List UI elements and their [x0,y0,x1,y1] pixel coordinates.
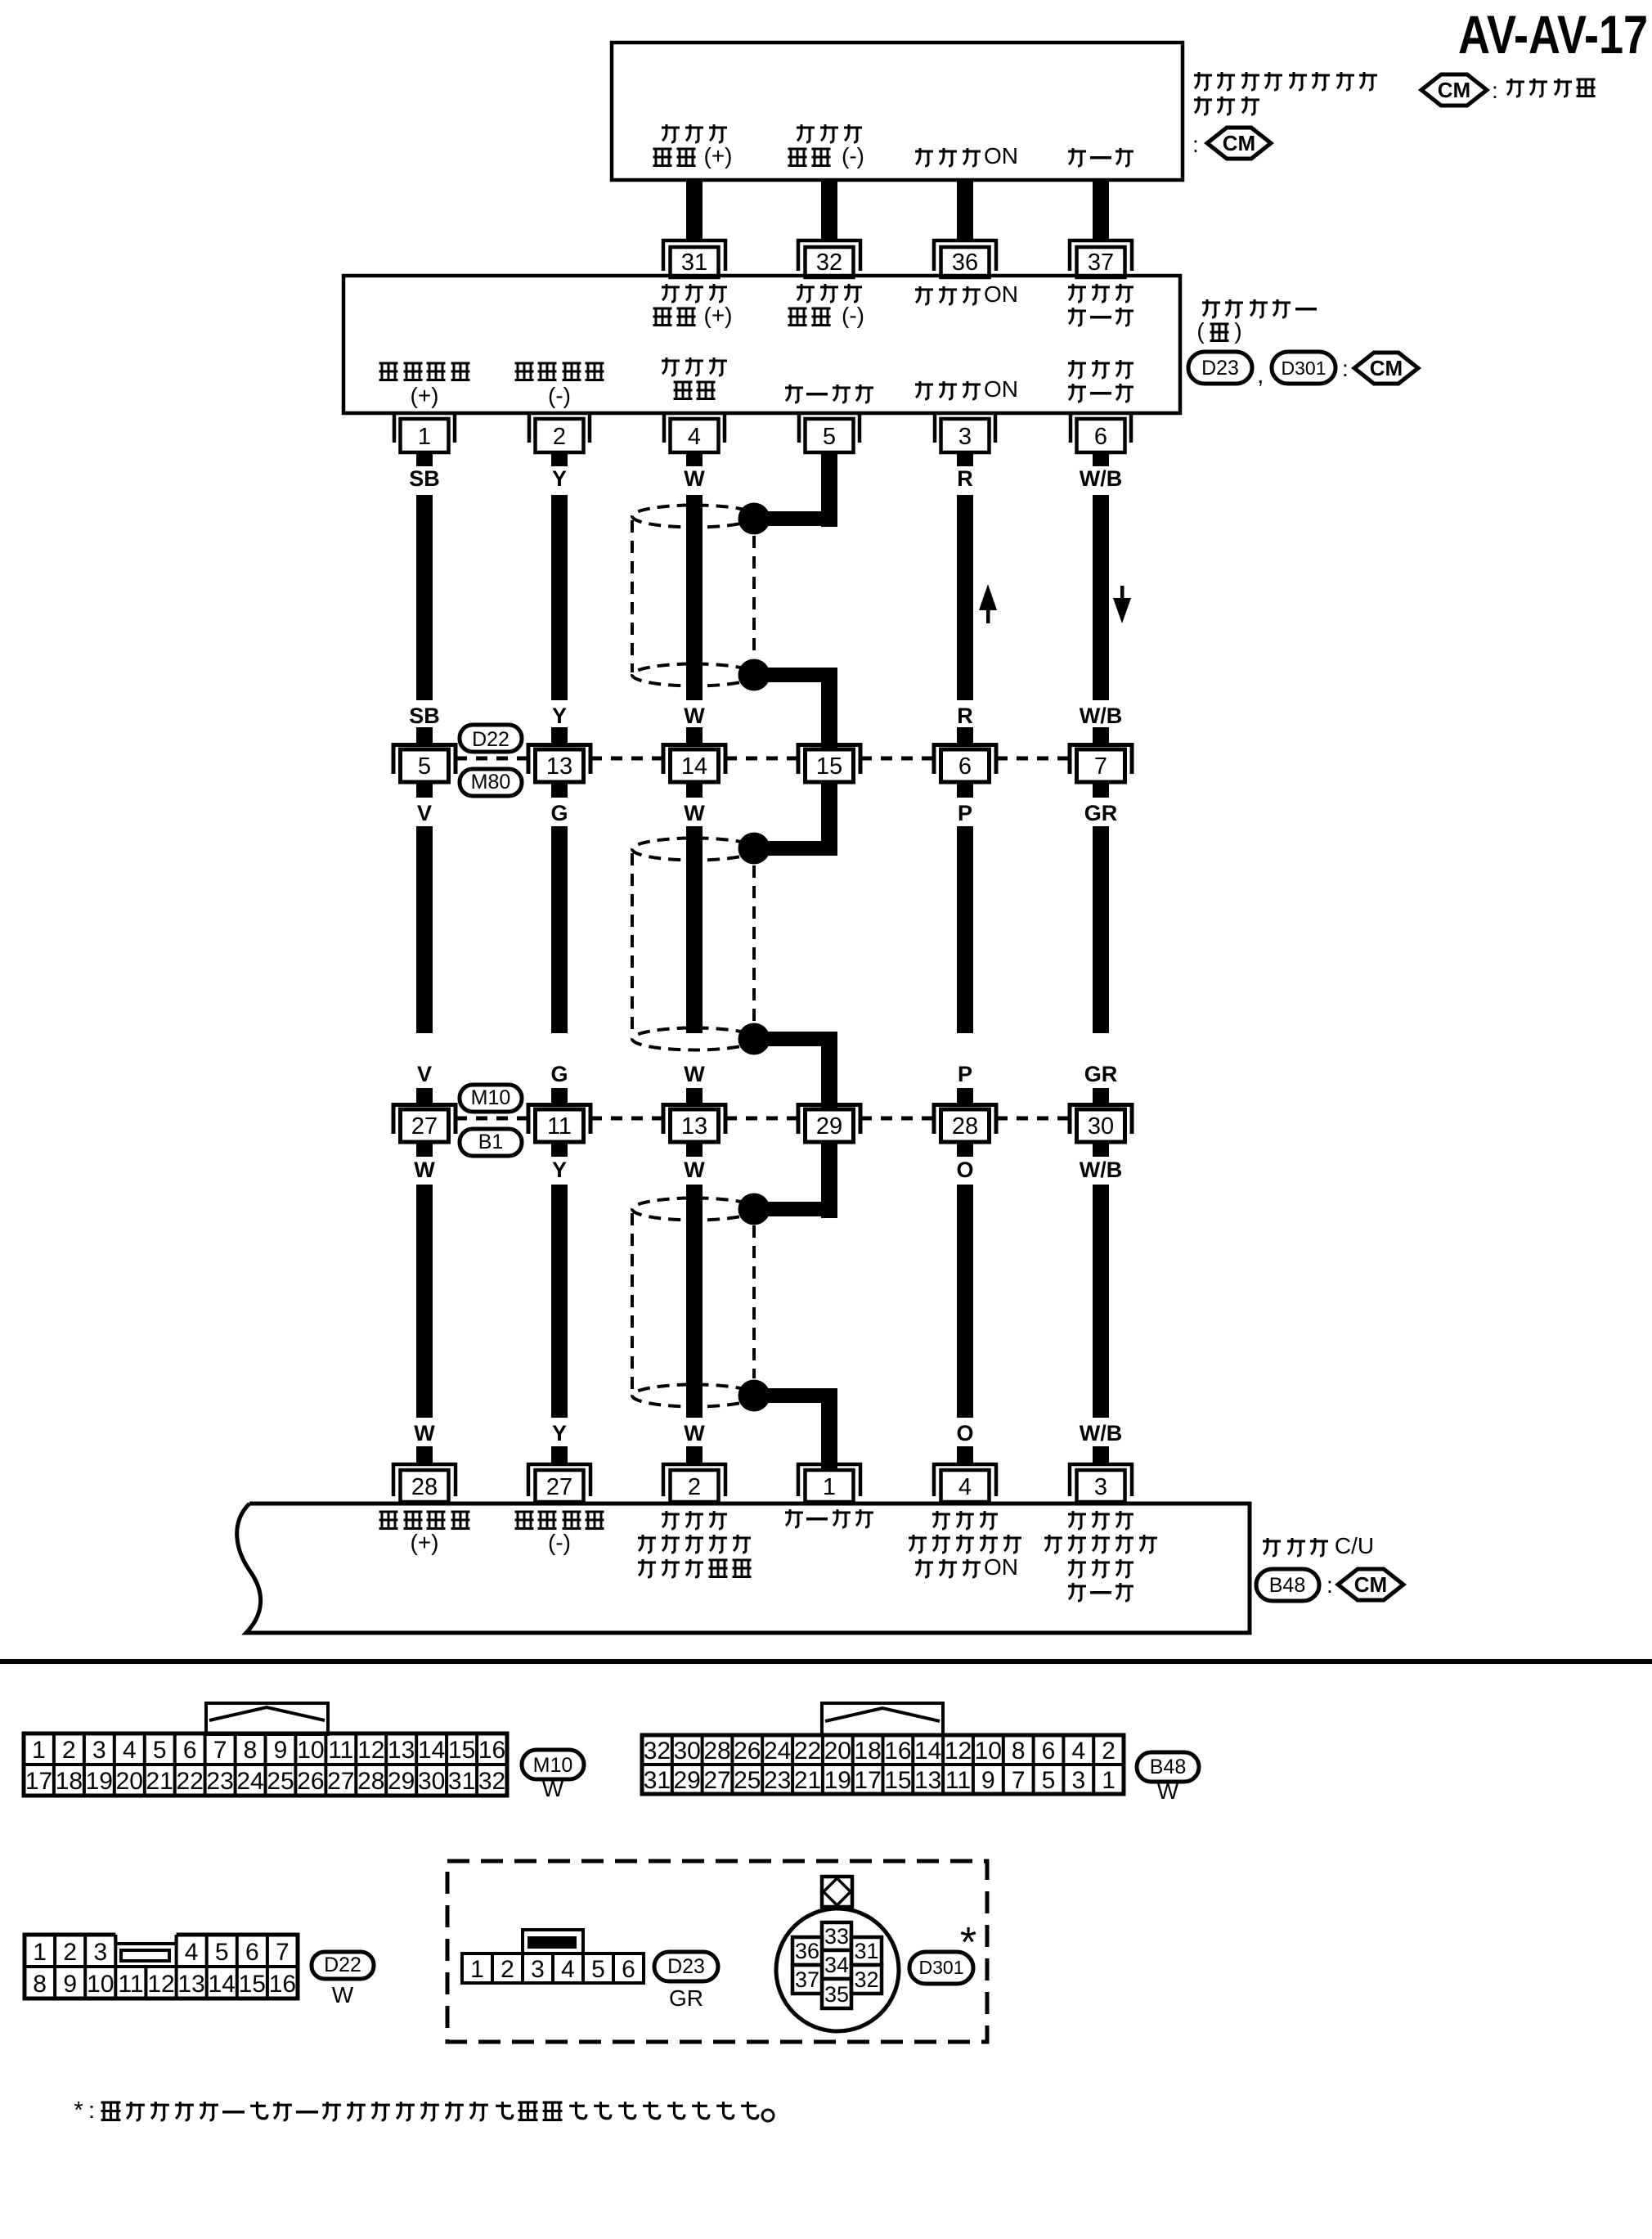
svg-text:SB: SB [409,466,440,491]
annotation: side blind camera [1194,72,1377,90]
svg-text:ON: ON [984,1554,1018,1580]
svg-text:11: 11 [328,1737,353,1764]
svg-text:GR: GR [1084,1062,1118,1086]
svg-text:(+): (+) [411,383,439,408]
door mirror bottom label c2 line1 [515,363,604,380]
CU label c2 line1 [515,1512,604,1529]
svg-text:W: W [414,1158,435,1182]
label camera eizo(+) line1 [662,124,727,142]
pin 28 camera C/U [393,1464,456,1502]
door mirror bottom label c2 line2 [548,383,571,408]
svg-text:P: P [958,1062,972,1086]
svg-text:6: 6 [183,1737,197,1764]
wire stub below row2 [1093,1142,1109,1157]
door mirror top label c5 [915,281,1018,307]
svg-text:(-): (-) [842,303,864,328]
pin 30 row2 [1070,1105,1132,1143]
svg-text:19: 19 [824,1767,851,1794]
wire segment [957,495,973,700]
pin 28 row2 [934,1105,996,1143]
in-line connector dashed row [456,757,528,761]
svg-text:): ) [1234,318,1241,344]
svg-text:M10: M10 [471,1086,511,1109]
svg-text:D22: D22 [472,728,510,751]
svg-text:14: 14 [681,753,707,780]
svg-text:35: 35 [824,1982,849,2007]
in-line connector dashed row 2 [996,1117,1070,1121]
svg-text:2: 2 [63,1939,77,1966]
pin 6 row1 [934,745,996,783]
shield wire bend to junction [762,511,837,526]
wire from camera unit [1093,178,1109,241]
pin 27 row2 [393,1105,456,1143]
svg-text:13: 13 [388,1737,415,1764]
wire stub [551,1088,568,1103]
svg-text:D22: D22 [324,1954,361,1976]
svg-text:1: 1 [823,1474,836,1500]
pin 1 door mirror [394,415,455,466]
wire segment [551,1185,568,1418]
label camera eizo(+) line2 [653,143,733,169]
pin 7 row1 [1070,745,1132,783]
svg-text:D23: D23 [667,1955,705,1978]
door mirror bottom label c6 line2 [1068,384,1134,402]
svg-text:7: 7 [276,1939,290,1966]
svg-text:3: 3 [1094,1474,1107,1500]
pin 37 [1070,241,1132,277]
wire segment [416,495,433,700]
shield cylinder 2 [632,839,756,1050]
svg-text:11: 11 [118,1971,143,1998]
annotation (left) [1196,318,1241,344]
svg-text:25: 25 [734,1767,761,1794]
svg-text:AV-AV-17: AV-AV-17 [1458,4,1648,65]
CU label c6 line3 [1068,1559,1134,1577]
wire segment [686,495,703,700]
CU label c3 line1 [662,1511,727,1529]
svg-text:20: 20 [116,1768,143,1795]
svg-text:29: 29 [388,1768,415,1795]
shield junction dot [738,1023,770,1055]
wire stub to camera CU pin [1093,1446,1109,1464]
svg-text:M10: M10 [533,1754,573,1777]
label camera ON [915,143,1018,169]
CU label c1 line2 [411,1530,439,1555]
svg-text:CM: CM [1438,78,1470,102]
wire stub to camera CU pin [551,1446,568,1464]
connector label M10 [460,1085,522,1112]
svg-text:CM: CM [1354,1572,1387,1597]
svg-text::: : [88,2097,95,2124]
svg-text:Y: Y [552,1158,567,1182]
svg-text:36: 36 [952,250,978,276]
svg-text:W: W [684,1421,705,1445]
door mirror bottom label shield [785,384,873,402]
svg-text:28: 28 [703,1738,730,1765]
svg-text:*: * [960,1919,976,1967]
CU label c3 line3 [638,1559,752,1577]
pin 5 row1 [393,745,456,783]
svg-text:ON: ON [984,281,1018,307]
in-line connector dashed row [996,757,1070,761]
CM hexagon for camera C/U [1338,1569,1403,1600]
shield wire bend from junction [762,668,837,682]
svg-text:28: 28 [411,1474,438,1500]
svg-text:4: 4 [688,424,701,450]
box: camera control unit [237,1504,1250,1633]
connector label B48 [1256,1569,1319,1601]
wire segment [1093,495,1109,700]
svg-text:24: 24 [764,1738,791,1765]
shield junction dot [738,1380,770,1412]
svg-text:W: W [414,1421,435,1445]
arrow down (signal direction) on W/B wire [1113,586,1131,623]
svg-text:12: 12 [147,1971,174,1998]
wire stub [686,727,703,743]
svg-text:1: 1 [470,1956,484,1983]
CU label c3 line2 [638,1535,751,1553]
svg-text:(: ( [1196,318,1205,344]
shield braid dashed link [752,536,756,657]
pin 5 door mirror [799,415,860,466]
svg-text:27: 27 [411,1113,438,1140]
svg-text:27: 27 [327,1768,354,1795]
svg-text:15: 15 [239,1971,266,1998]
svg-text:*: * [74,2097,83,2124]
pin 13 row1 [528,745,590,783]
pin 27 camera C/U [528,1464,590,1502]
svg-text:Y: Y [552,1421,567,1445]
label earth [1068,148,1134,166]
svg-text:12: 12 [357,1737,384,1764]
svg-text:ON: ON [984,143,1018,169]
pin 13 row2 [663,1105,725,1143]
wire from camera unit [957,178,973,241]
label camera eizo(-) line1 [797,124,862,142]
svg-text:6: 6 [1042,1738,1056,1765]
svg-text:CM: CM [1370,356,1403,380]
svg-text:31: 31 [854,1939,878,1963]
svg-text:8: 8 [1012,1738,1026,1765]
svg-text:23: 23 [206,1768,233,1795]
door mirror bottom label c6 line1 [1068,360,1134,378]
wire stub below row2 [416,1142,433,1157]
svg-text:1: 1 [418,424,431,450]
svg-text:24: 24 [236,1768,263,1795]
pin 3 camera C/U [1070,1464,1132,1502]
door mirror bottom label c5 [915,376,1018,402]
shield junction dot [738,503,770,535]
wire stub below row1 [1093,782,1109,798]
svg-text:5: 5 [1042,1767,1056,1794]
svg-text:13: 13 [914,1767,941,1794]
svg-text:3: 3 [958,424,972,450]
pin 29 row2 [798,1105,860,1143]
svg-text:15: 15 [884,1767,911,1794]
svg-text:W: W [684,1158,705,1182]
svg-text:W: W [1157,1778,1179,1804]
CU label c6 line2 [1044,1535,1157,1553]
svg-text:6: 6 [245,1939,259,1966]
shield wire bend to junction 3a [762,1202,837,1216]
door mirror top label c6 line2 [1068,308,1134,326]
wire stub to camera CU pin [686,1446,703,1464]
svg-text:4: 4 [185,1939,199,1966]
wire stub to camera CU pin [957,1446,973,1464]
svg-text::: : [1342,356,1349,381]
pin 15 row1 [798,745,860,783]
wire segment [957,826,973,1033]
svg-text:5: 5 [418,753,431,780]
wire segment [1093,1185,1109,1418]
door mirror top label c4 line2 [788,303,864,328]
svg-text:22: 22 [177,1768,204,1795]
wire stub below row2 [686,1142,703,1157]
CU label c2 line2 [548,1530,571,1555]
svg-text:W: W [684,801,705,825]
door mirror top label c3 line2 [653,303,733,328]
CU label c5 line2 [909,1535,1021,1553]
shield cylinder 1 [632,506,756,686]
svg-text:GR: GR [1084,801,1118,825]
svg-text:28: 28 [952,1113,978,1140]
svg-text:W/B: W/B [1080,466,1122,491]
wire segment [957,1185,973,1418]
svg-text:32: 32 [816,250,842,276]
svg-text:4: 4 [561,1956,575,1983]
svg-text:W: W [332,1982,354,2007]
svg-text:15: 15 [448,1737,475,1764]
wire segment [416,826,433,1033]
svg-text:3: 3 [93,1939,107,1966]
connector face D22 [25,1935,298,1998]
connector face D23 [462,1930,644,1983]
svg-text:6: 6 [958,753,972,780]
wire stub [416,1088,433,1103]
svg-text:11: 11 [547,1113,572,1140]
in-line connector dashed row 2 [860,1117,934,1121]
svg-text:2: 2 [553,424,566,450]
svg-text:32: 32 [854,1967,878,1992]
svg-text:25: 25 [267,1768,294,1795]
pin 36 [934,241,996,277]
connector label M80 [460,769,522,796]
svg-text:27: 27 [703,1767,730,1794]
svg-text:Y: Y [552,704,567,728]
svg-text:G: G [550,1062,568,1086]
svg-text:4: 4 [958,1474,972,1500]
svg-text:14: 14 [914,1738,941,1765]
door mirror top label c6 line1 [1068,284,1134,302]
svg-text:9: 9 [63,1971,77,1998]
svg-text:6: 6 [1094,424,1107,450]
svg-text:5: 5 [823,424,836,450]
svg-text:P: P [958,801,972,825]
in-line connector dashed row 2 [590,1117,663,1121]
svg-text:O: O [956,1158,973,1182]
box: door mirror (left) [343,276,1180,413]
svg-text:16: 16 [884,1738,911,1765]
svg-text:1: 1 [33,1939,47,1966]
note text [74,2097,774,2124]
connector face B48 [642,1703,1124,1794]
label camera eizo(-) line2 [788,143,864,169]
svg-text:W/B: W/B [1080,1421,1122,1445]
svg-text:36: 36 [795,1939,819,1963]
legend camera-tsuki [1506,79,1596,97]
pin 32 [798,241,860,277]
connector label M10 [522,1750,584,1779]
door mirror bottom label c3 line2 [674,382,716,399]
svg-text:21: 21 [146,1768,173,1795]
in-line connector dashed row 2 [725,1117,798,1121]
svg-text:13: 13 [681,1113,707,1140]
svg-text::: : [1327,1572,1333,1598]
CM hexagon for side blind camera [1207,128,1271,159]
in-line connector dashed row 2 [456,1117,528,1121]
svg-text:W/B: W/B [1080,1158,1122,1182]
shield drain wire down to pin 1 [821,1388,837,1470]
svg-text:C/U: C/U [1335,1533,1374,1558]
CU label c5 line1 [932,1511,998,1529]
svg-text:4: 4 [123,1737,137,1764]
svg-text:(-): (-) [548,1530,571,1555]
in-line connector dashed row [725,757,798,761]
wire segment [416,1185,433,1418]
svg-text:30: 30 [674,1738,701,1765]
wire stub [551,727,568,743]
svg-text:5: 5 [591,1956,605,1983]
svg-text:13: 13 [546,753,572,780]
CU label c1 line1 [379,1512,470,1529]
svg-text:30: 30 [1088,1113,1114,1140]
shield braid dashed link 3 [752,1225,756,1378]
door mirror bottom label c1 line1 [379,363,470,380]
wire stub below row2 [551,1142,568,1157]
svg-text:W: W [684,704,705,728]
svg-text:3: 3 [1071,1767,1085,1794]
wire stub below row1 [686,782,703,798]
svg-text:37: 37 [795,1967,819,1992]
svg-text:30: 30 [418,1768,445,1795]
pin 11 row2 [528,1105,590,1143]
dashed box (connectors not in harness layout) [447,1861,987,2042]
svg-text:16: 16 [269,1971,296,1998]
door mirror bottom label c3 line1 [662,357,727,375]
pin 14 row1 [663,745,725,783]
svg-text:21: 21 [794,1767,821,1794]
box: side blind camera unit [612,43,1183,180]
pin 2 camera C/U [663,1464,725,1502]
svg-text:G: G [550,801,568,825]
svg-text:32: 32 [644,1738,671,1765]
svg-text:2: 2 [688,1474,701,1500]
svg-text:18: 18 [56,1768,83,1795]
svg-text:B48: B48 [1150,1756,1186,1778]
pin 3 door mirror [935,415,995,466]
shield cylinder 3 [632,1198,756,1407]
shield wire bend from junction 3b [762,1388,837,1403]
svg-text:15: 15 [816,753,842,780]
svg-text:28: 28 [357,1768,384,1795]
svg-text:8: 8 [33,1971,47,1998]
svg-text:Y: Y [552,466,567,491]
svg-text:31: 31 [644,1767,671,1794]
wire segment [686,826,703,1033]
annotation door mirror [1202,299,1317,317]
svg-text:B48: B48 [1269,1574,1305,1597]
wire segment [551,495,568,700]
svg-text:(+): (+) [704,143,733,169]
svg-text::: : [1492,78,1498,103]
shield drain wire down through pin 29 [821,1032,837,1218]
wire stub below row1 [957,782,973,798]
svg-text:31: 31 [681,250,707,276]
svg-text:17: 17 [854,1767,881,1794]
wire from camera unit [821,178,837,241]
CM hexagon legend [1421,74,1487,106]
svg-text:16: 16 [478,1737,505,1764]
svg-text:17: 17 [25,1768,52,1795]
pin 4 door mirror [664,415,725,466]
svg-text:19: 19 [86,1768,113,1795]
svg-text:5: 5 [153,1737,167,1764]
svg-text:W: W [542,1776,564,1801]
svg-text:34: 34 [824,1953,849,1977]
connector face M10 [24,1703,507,1796]
connector label D22 [460,725,522,752]
svg-text:R: R [957,704,973,728]
svg-text:D301: D301 [1282,357,1327,379]
svg-text:W/B: W/B [1080,704,1122,728]
svg-text:(-): (-) [842,143,864,169]
svg-text:D23: D23 [1201,357,1239,380]
svg-text:26: 26 [734,1738,761,1765]
svg-text:ON: ON [984,376,1018,402]
svg-text:W: W [684,1062,705,1086]
svg-text:5: 5 [215,1939,229,1966]
svg-text:(+): (+) [411,1530,439,1555]
wire stub [957,1088,973,1103]
svg-text:9: 9 [981,1767,995,1794]
svg-text:8: 8 [244,1737,258,1764]
wire stub [416,727,433,743]
annotation camera C/U [1263,1533,1374,1558]
svg-text:2: 2 [501,1956,514,1983]
pin 6 door mirror [1071,415,1131,466]
svg-text:2: 2 [1102,1738,1116,1765]
connector label D23 [1188,352,1252,384]
svg-text:32: 32 [478,1768,505,1795]
svg-text:31: 31 [448,1768,475,1795]
svg-text:7: 7 [1094,753,1107,780]
svg-text:18: 18 [854,1738,881,1765]
svg-text:3: 3 [531,1956,545,1983]
connector label D301 [1272,352,1336,384]
CU label c5 line3 [915,1554,1018,1580]
svg-text:W: W [684,466,705,491]
wire stub below row2 [957,1142,973,1157]
shield drain wire from pin 5 [821,452,837,527]
wire stub [1093,727,1109,743]
connector label D23 [654,1952,718,1981]
door mirror bottom label c1 line2 [411,383,439,408]
svg-text:SB: SB [409,704,440,728]
svg-text:O: O [956,1421,973,1445]
svg-text:R: R [957,466,973,491]
svg-text:20: 20 [824,1738,851,1765]
svg-text:23: 23 [764,1767,791,1794]
